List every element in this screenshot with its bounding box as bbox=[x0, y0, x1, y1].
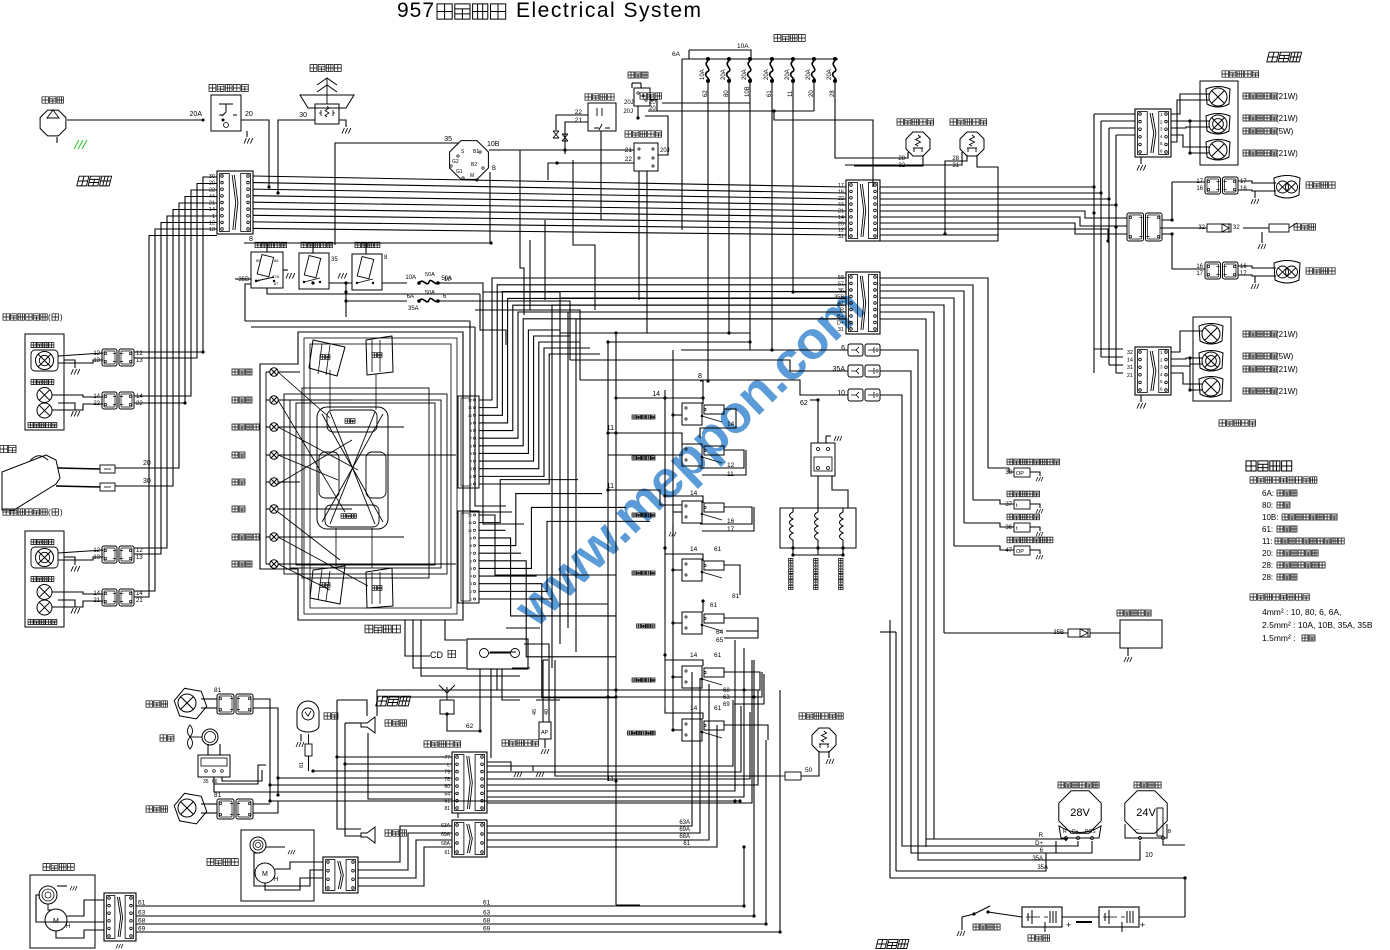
wire connC out 6 bbox=[487, 660, 752, 803]
wire rh lamp1 a bbox=[58, 353, 103, 356]
wire eng 35A bbox=[896, 841, 1056, 871]
rear wiper box bbox=[241, 830, 314, 901]
svg-text:30: 30 bbox=[255, 278, 260, 283]
wire relay1 top bbox=[266, 243, 268, 252]
svg-text:OP: OP bbox=[1016, 471, 1024, 477]
wire midA r5 bbox=[880, 211, 1127, 218]
ap ground bbox=[541, 749, 549, 754]
wire horn ground bbox=[339, 120, 346, 127]
svg-text:22: 22 bbox=[136, 401, 143, 407]
mesh vertical 616 bbox=[615, 333, 617, 905]
svg-text:62: 62 bbox=[800, 400, 808, 407]
wire buzzer a bbox=[1160, 227, 1207, 229]
svg-text:68A: 68A bbox=[441, 841, 451, 847]
wire cd gnd tail bbox=[497, 689, 540, 691]
svg-text:20A: 20A bbox=[721, 69, 727, 80]
radio antenna label bbox=[424, 741, 461, 747]
wire s3 in bbox=[673, 511, 682, 513]
wire pbs leg2 bbox=[828, 751, 830, 758]
svg-text:(21W): (21W) bbox=[1276, 92, 1298, 101]
wire strip0 pin1 bbox=[479, 285, 846, 408]
svg-text:12: 12 bbox=[727, 462, 735, 469]
right rear flood label bbox=[1306, 182, 1335, 188]
wire V1-5 bbox=[115, 210, 217, 487]
junction brake bbox=[943, 232, 946, 235]
horn button label bbox=[310, 65, 341, 72]
svg-text:87A: 87A bbox=[272, 274, 279, 279]
knife switch label bbox=[973, 924, 1000, 930]
svg-text:20A: 20A bbox=[806, 69, 812, 80]
wire indicator 7 bbox=[266, 563, 270, 565]
wire fuse f4 drop bbox=[681, 83, 772, 350]
coil 3 bbox=[840, 512, 844, 540]
svg-text:(5W): (5W) bbox=[1276, 127, 1294, 136]
flasher box bbox=[634, 88, 650, 106]
s3 ground bbox=[669, 532, 676, 536]
right width lamp label bbox=[31, 380, 54, 385]
wire warn 21 bbox=[565, 122, 588, 154]
wire E out up bbox=[1162, 182, 1172, 220]
svg-text:61: 61 bbox=[714, 652, 722, 659]
cluster gauge hatches bbox=[318, 344, 322, 374]
wire H1-8 bbox=[253, 228, 846, 235]
wire wl1 out2 bbox=[253, 708, 278, 795]
wire connC L1 bbox=[337, 756, 452, 758]
svg-text:R: R bbox=[1039, 833, 1044, 839]
svg-text:2: 2 bbox=[470, 590, 472, 594]
cluster indicator label 5 bbox=[232, 506, 245, 512]
cluster inner outline bbox=[304, 338, 457, 614]
left speaker bbox=[361, 827, 375, 843]
svg-text:20: 20 bbox=[649, 100, 656, 106]
svg-text:(21W): (21W) bbox=[1276, 330, 1298, 339]
svg-text:81: 81 bbox=[214, 792, 222, 799]
svg-text:61: 61 bbox=[299, 762, 305, 768]
svg-text:66: 66 bbox=[212, 779, 218, 785]
svg-text:21: 21 bbox=[93, 598, 100, 604]
wire H1-4 bbox=[253, 202, 846, 211]
wire stair bot c bbox=[536, 699, 560, 701]
tech text line 10 bbox=[1250, 594, 1309, 600]
cluster pin strip 1 bbox=[458, 511, 479, 603]
wire buzzer b bbox=[1243, 227, 1269, 229]
svg-text:17: 17 bbox=[838, 183, 844, 189]
wire washer-switch ground stub bbox=[246, 131, 248, 137]
sensor 36 ground bbox=[1036, 532, 1043, 536]
connector 50 bbox=[785, 772, 801, 780]
svg-text:21: 21 bbox=[1127, 373, 1133, 379]
cluster internal wires bbox=[278, 372, 330, 418]
wire fuse f2 drop bbox=[616, 83, 729, 333]
wire ts drop1 bbox=[638, 171, 640, 300]
svg-text:16: 16 bbox=[727, 518, 735, 525]
svg-text:10A: 10A bbox=[737, 43, 749, 50]
sensor 47 ground bbox=[1036, 555, 1043, 559]
wire s3 out17 bbox=[702, 507, 754, 531]
wire H2 cont a bbox=[483, 292, 524, 524]
fan motor box bbox=[198, 755, 230, 777]
sensor 47 bbox=[1014, 546, 1030, 555]
svg-text:R: R bbox=[1063, 829, 1067, 835]
svg-text:14: 14 bbox=[1127, 358, 1133, 364]
svg-text:1: 1 bbox=[212, 214, 215, 220]
cab label bbox=[376, 696, 411, 706]
wire strip0 pin10 bbox=[479, 348, 590, 476]
right headlamp ground2 bbox=[71, 411, 80, 417]
svg-text:44: 44 bbox=[838, 202, 844, 208]
wire flasher right bbox=[650, 100, 657, 111]
right rear brake lamp bbox=[1206, 114, 1230, 135]
switch S2 headlight switch label bbox=[632, 456, 655, 460]
air pressure sensor bbox=[539, 722, 551, 739]
svg-text:13: 13 bbox=[93, 358, 100, 364]
left rear combo label bbox=[1219, 420, 1256, 426]
svg-text:12: 12 bbox=[209, 220, 215, 226]
svg-text:14: 14 bbox=[136, 394, 143, 400]
wire rw out4 bbox=[358, 847, 452, 886]
fuse bus loop bbox=[689, 50, 751, 59]
wire stair bot f bbox=[506, 627, 540, 629]
front wiper motor bbox=[45, 909, 67, 931]
svg-text:M: M bbox=[262, 871, 268, 878]
wire 81 long bbox=[270, 800, 740, 802]
svg-text:20J: 20J bbox=[623, 109, 633, 115]
wire cross d bbox=[480, 294, 506, 345]
svg-text:20: 20 bbox=[143, 460, 151, 467]
right rear reverse lamp bbox=[1206, 140, 1230, 161]
wire relay bottom long3 bbox=[251, 326, 475, 328]
cluster side pod right bbox=[366, 452, 386, 498]
solenoid switch label bbox=[355, 242, 380, 248]
wire relay2 top bbox=[312, 243, 314, 253]
mesh dots bbox=[614, 396, 617, 399]
wire connC gnd2 bbox=[487, 762, 511, 771]
wire antenna 62 bbox=[447, 714, 480, 731]
svg-text:35B: 35B bbox=[1053, 630, 1064, 636]
wire horn to connector bbox=[278, 120, 315, 193]
front frame connector bbox=[217, 171, 253, 234]
cluster center top gauge bbox=[327, 410, 377, 432]
wire mesh 608 to s2 bbox=[608, 433, 682, 445]
wire H2 left 0 bbox=[560, 298, 846, 644]
wire stair bot a bbox=[560, 603, 608, 605]
starter label bbox=[1134, 782, 1161, 788]
svg-text:(21W): (21W) bbox=[1276, 114, 1298, 123]
svg-text:31: 31 bbox=[1127, 365, 1133, 371]
wire s4 out81 bbox=[724, 565, 740, 595]
wire mesh 608 to s3 bbox=[608, 490, 682, 505]
left rear brake lamp bbox=[1199, 324, 1223, 345]
svg-text:13: 13 bbox=[136, 555, 143, 561]
wire s4 in bbox=[673, 569, 682, 571]
right high-beam label bbox=[31, 343, 54, 348]
svg-text:28: 28 bbox=[898, 156, 905, 162]
left rear connector bbox=[1135, 347, 1171, 395]
wire lrl 2 bbox=[1171, 358, 1202, 359]
svg-text:61: 61 bbox=[714, 705, 722, 712]
svg-text:69: 69 bbox=[723, 702, 730, 708]
wire stair bot g bbox=[490, 651, 516, 653]
cluster label bbox=[365, 625, 400, 633]
left headlamp ground2 bbox=[71, 608, 80, 614]
fuse F3 bbox=[748, 57, 752, 61]
wire 896 source bbox=[880, 631, 896, 633]
wire s2 out12 bbox=[700, 450, 744, 468]
wire ignition B down bbox=[489, 172, 491, 243]
dome ground bbox=[296, 742, 304, 747]
svg-text:10: 10 bbox=[468, 529, 472, 533]
svg-text:11: 11 bbox=[607, 425, 614, 432]
wire connC out 4 bbox=[487, 640, 735, 791]
wire cluster drop4 bbox=[445, 620, 466, 640]
svg-text:17: 17 bbox=[727, 526, 735, 533]
svg-text:8: 8 bbox=[470, 544, 472, 548]
right rear conn ground bbox=[1137, 165, 1146, 171]
junction wl bbox=[268, 799, 271, 802]
right speaker label bbox=[385, 720, 407, 726]
wire ts 20J bbox=[645, 116, 668, 155]
wire rh lamp2 bbox=[52, 395, 103, 397]
left headlamp box bbox=[25, 531, 64, 627]
wire mesh 616 to s1 bbox=[616, 397, 665, 399]
wire cluster drop3 bbox=[421, 620, 520, 676]
right speaker bbox=[361, 717, 375, 733]
wire s2 in bbox=[608, 454, 682, 456]
wire relay1 b down bbox=[267, 288, 480, 294]
svg-text:28V: 28V bbox=[1070, 807, 1090, 819]
fuse F7 bbox=[833, 57, 837, 61]
svg-text:50: 50 bbox=[805, 767, 813, 774]
mesh vertical 665 bbox=[664, 390, 666, 620]
wire warn 22 bbox=[556, 115, 588, 130]
svg-text:6A: 6A bbox=[672, 51, 681, 58]
svg-text:12: 12 bbox=[838, 228, 844, 234]
wire solenoid gnd bbox=[1127, 648, 1129, 656]
left rear lamp connector bbox=[1205, 262, 1221, 279]
buzzer ground bbox=[1258, 244, 1266, 249]
junction dots relay outputs bbox=[344, 281, 347, 284]
wire fw a bbox=[67, 900, 104, 916]
wire strip0 pin3 bbox=[479, 298, 846, 423]
cluster gauge top-left bbox=[309, 340, 345, 376]
hot start solenoid box bbox=[1120, 620, 1162, 648]
wire strip1 pin3 bbox=[479, 538, 616, 616]
wire H2 cont b bbox=[470, 321, 512, 512]
brake lamp switch label bbox=[950, 119, 987, 125]
cluster wire loop 3 bbox=[296, 403, 435, 565]
wire midA r2 bbox=[880, 192, 1101, 194]
svg-text:B1: B1 bbox=[473, 149, 479, 155]
sensor 36 bbox=[1014, 523, 1030, 532]
wire fuse f1 drop bbox=[707, 83, 709, 381]
flasher loop bbox=[632, 82, 641, 84]
wire drop 520 bbox=[520, 150, 524, 315]
cd player box bbox=[467, 639, 528, 669]
svg-text:36: 36 bbox=[1005, 525, 1012, 531]
svg-text:20: 20 bbox=[649, 106, 656, 112]
fuel-cut relay bbox=[251, 252, 283, 288]
buzzer bbox=[1269, 224, 1289, 232]
right rear lamp labels bbox=[1243, 93, 1277, 99]
svg-text:Electrical System: Electrical System bbox=[516, 0, 703, 22]
right turn lamp bbox=[37, 403, 52, 418]
svg-text:G2: G2 bbox=[452, 159, 459, 165]
svg-text:64: 64 bbox=[716, 629, 724, 636]
wire sensor36 branch bbox=[964, 523, 1014, 527]
wire fan out2 bbox=[222, 770, 262, 781]
wire stair bot b bbox=[543, 659, 548, 661]
svg-text:M: M bbox=[470, 173, 474, 179]
wire sensor 47 gnd bbox=[1030, 550, 1040, 554]
wire connC out 5 bbox=[487, 648, 744, 797]
svg-text:81: 81 bbox=[214, 687, 222, 694]
right headlamp connector 14/22 bbox=[102, 392, 117, 409]
junction eng riser bbox=[1183, 876, 1186, 879]
wire dome down bbox=[308, 756, 310, 771]
wire ignition 10B right bbox=[489, 149, 520, 151]
wire V1-7 bbox=[134, 223, 217, 555]
cluster gauge bottom-left bbox=[310, 566, 345, 604]
svg-text:(: ( bbox=[48, 508, 51, 517]
junction 81 bbox=[738, 799, 741, 802]
svg-text:+: + bbox=[1140, 920, 1145, 930]
wire lh lamp1 b bbox=[58, 557, 103, 560]
wire drop 545 bbox=[544, 220, 546, 300]
junction connC bbox=[733, 799, 736, 802]
wire s5 out65 bbox=[724, 631, 758, 638]
svg-text:22: 22 bbox=[625, 156, 633, 163]
wire midA r1 bbox=[880, 186, 1094, 188]
wire strip0 pin9 bbox=[479, 342, 580, 469]
svg-text:R: R bbox=[840, 308, 844, 314]
svg-text:47: 47 bbox=[838, 301, 844, 307]
wire pbs leg1 bbox=[818, 751, 820, 762]
wire indicator 5 bbox=[266, 508, 270, 510]
svg-text:16: 16 bbox=[1240, 186, 1247, 192]
rr conn ground bbox=[1140, 157, 1142, 164]
wire cross a bbox=[483, 292, 560, 333]
wire connC L4 bbox=[278, 777, 452, 779]
wire rrz b bbox=[1238, 190, 1276, 191]
left rear width lamp bbox=[1199, 351, 1223, 372]
battery 2 bbox=[1099, 907, 1139, 927]
wire midA r6 bbox=[880, 217, 1127, 226]
ignition switch bbox=[450, 141, 489, 180]
wire fw c bbox=[36, 895, 104, 922]
wire brake 31 bbox=[880, 155, 998, 241]
svg-text:21: 21 bbox=[136, 598, 143, 604]
wire strip0 pin6 bbox=[479, 319, 846, 446]
wire cluster row 5 bbox=[278, 508, 352, 510]
wire rrl 5 bbox=[1171, 100, 1209, 142]
svg-text:20A: 20A bbox=[785, 69, 791, 80]
wire s4 feed bbox=[665, 548, 703, 561]
svg-text:(21W): (21W) bbox=[1276, 149, 1298, 158]
wire midA r8 bbox=[880, 229, 1108, 241]
right headlamp assembly label bbox=[3, 314, 47, 320]
wire sensor38 branch bbox=[988, 468, 1014, 472]
front wiper connector bbox=[104, 893, 136, 941]
wire ts 21b bbox=[564, 150, 566, 154]
svg-text:80:: 80: bbox=[1262, 501, 1273, 510]
svg-text:65: 65 bbox=[716, 637, 724, 644]
svg-text:4mm² : 10, 80, 6, 6A,: 4mm² : 10, 80, 6, 6A, bbox=[1262, 607, 1341, 617]
switch S7 rear wiper switch bbox=[682, 719, 702, 741]
wire conn10 left bbox=[580, 380, 848, 395]
svg-text:20A: 20A bbox=[827, 69, 833, 80]
svg-text:12: 12 bbox=[93, 548, 100, 554]
wire connD out 1 bbox=[487, 678, 700, 833]
left front turn label bbox=[28, 620, 57, 625]
wire bat link bbox=[1062, 916, 1099, 918]
junction dot v1b bbox=[183, 401, 186, 404]
reversing lamp switch label bbox=[897, 119, 934, 125]
wire bottom 61 bbox=[136, 905, 744, 907]
mid connector E bbox=[1127, 213, 1144, 241]
svg-text:35A: 35A bbox=[1032, 856, 1043, 862]
wire conn35A right bbox=[880, 371, 1092, 853]
svg-text:35A: 35A bbox=[1037, 865, 1048, 871]
svg-text:(5W): (5W) bbox=[1276, 352, 1294, 361]
rr flood ground bbox=[1251, 199, 1259, 204]
knife switch bbox=[972, 912, 975, 915]
right headlamp ground1 bbox=[71, 369, 80, 375]
fan blades bbox=[188, 725, 193, 749]
svg-text:35A: 35A bbox=[833, 366, 846, 373]
cluster indicator 0 bbox=[270, 368, 278, 376]
svg-text:14: 14 bbox=[652, 391, 660, 398]
svg-text:(: ( bbox=[48, 313, 51, 322]
tech requirements title bbox=[1246, 461, 1292, 471]
hot start solenoid ground bbox=[1124, 657, 1132, 662]
right high-beam lamp bbox=[31, 350, 58, 371]
wire strip0 pin0 bbox=[479, 278, 846, 400]
cluster indicator 6 bbox=[270, 533, 278, 541]
svg-text:20J: 20J bbox=[624, 100, 634, 106]
wire strip1 pin9 bbox=[479, 584, 616, 698]
wire sensor37 branch bbox=[973, 500, 1014, 504]
wire lrz feed bbox=[1172, 268, 1205, 270]
switch dots bbox=[663, 546, 666, 549]
turn signal switch label bbox=[625, 131, 662, 137]
wire cluster row 1 bbox=[278, 399, 352, 401]
front wiper gnd bbox=[70, 886, 77, 890]
front wiper coil bbox=[39, 886, 57, 904]
wire connC out 1 bbox=[487, 706, 741, 772]
work lamp 1 bbox=[172, 687, 209, 720]
wire rw b bbox=[265, 878, 323, 890]
svg-text:68A: 68A bbox=[679, 834, 690, 840]
fuse box label bbox=[774, 35, 805, 42]
right rear flood lamp bbox=[1274, 176, 1300, 199]
left rear flood lamp bbox=[1274, 261, 1300, 284]
wire H2 left 1 bbox=[552, 305, 846, 668]
dome light label bbox=[324, 713, 338, 719]
wire rrl 1 bbox=[1171, 94, 1209, 114]
cluster indicator label 4 bbox=[232, 479, 245, 485]
svg-text:10: 10 bbox=[444, 277, 451, 283]
junction rrl bbox=[1188, 119, 1191, 122]
wire cluster row 2 bbox=[278, 426, 404, 428]
junction connD bbox=[742, 845, 745, 848]
svg-text:10: 10 bbox=[1145, 852, 1153, 859]
svg-text:63: 63 bbox=[138, 910, 146, 917]
svg-text:11: 11 bbox=[468, 521, 472, 525]
cluster pin strip 0 bbox=[458, 396, 479, 488]
wire sensor 37 gnd bbox=[1030, 504, 1040, 508]
svg-text:D+: D+ bbox=[1035, 841, 1043, 847]
svg-text:POS: POS bbox=[1085, 829, 1096, 835]
